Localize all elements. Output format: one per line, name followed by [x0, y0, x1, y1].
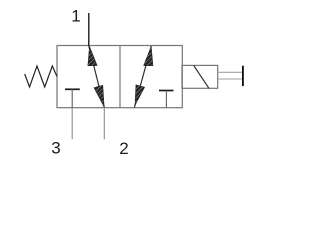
plunger lower line: [218, 78, 243, 80]
actuator box (solenoid): [182, 65, 218, 88]
arrowhead up (right square): [144, 46, 153, 66]
svg-text:3: 3: [51, 139, 60, 158]
wire: right square flow path: [134, 46, 151, 107]
blocked port 3 symbol (left square T): [65, 88, 80, 90]
valve body (two-position box): [57, 46, 182, 108]
plunger upper line: [218, 71, 243, 73]
solenoid diagonal: [194, 65, 209, 88]
port 2 stub: [103, 108, 105, 140]
svg-text:2: 2: [119, 139, 128, 158]
arrowhead up (left square, toward port 1): [88, 46, 97, 66]
plunger end bar: [242, 66, 244, 86]
wire: left square flow path 1-2: [89, 46, 105, 107]
blocked port symbol (right square T): [159, 90, 174, 92]
arrowhead down (left square, toward port 2): [94, 85, 104, 107]
port 3 stub: [71, 108, 73, 140]
spring (left return spring): [25, 66, 57, 87]
position divider: [119, 46, 121, 108]
arrowhead down (right square): [135, 85, 145, 106]
svg-text:1: 1: [71, 6, 80, 25]
port 1 connection line: [88, 13, 90, 46]
